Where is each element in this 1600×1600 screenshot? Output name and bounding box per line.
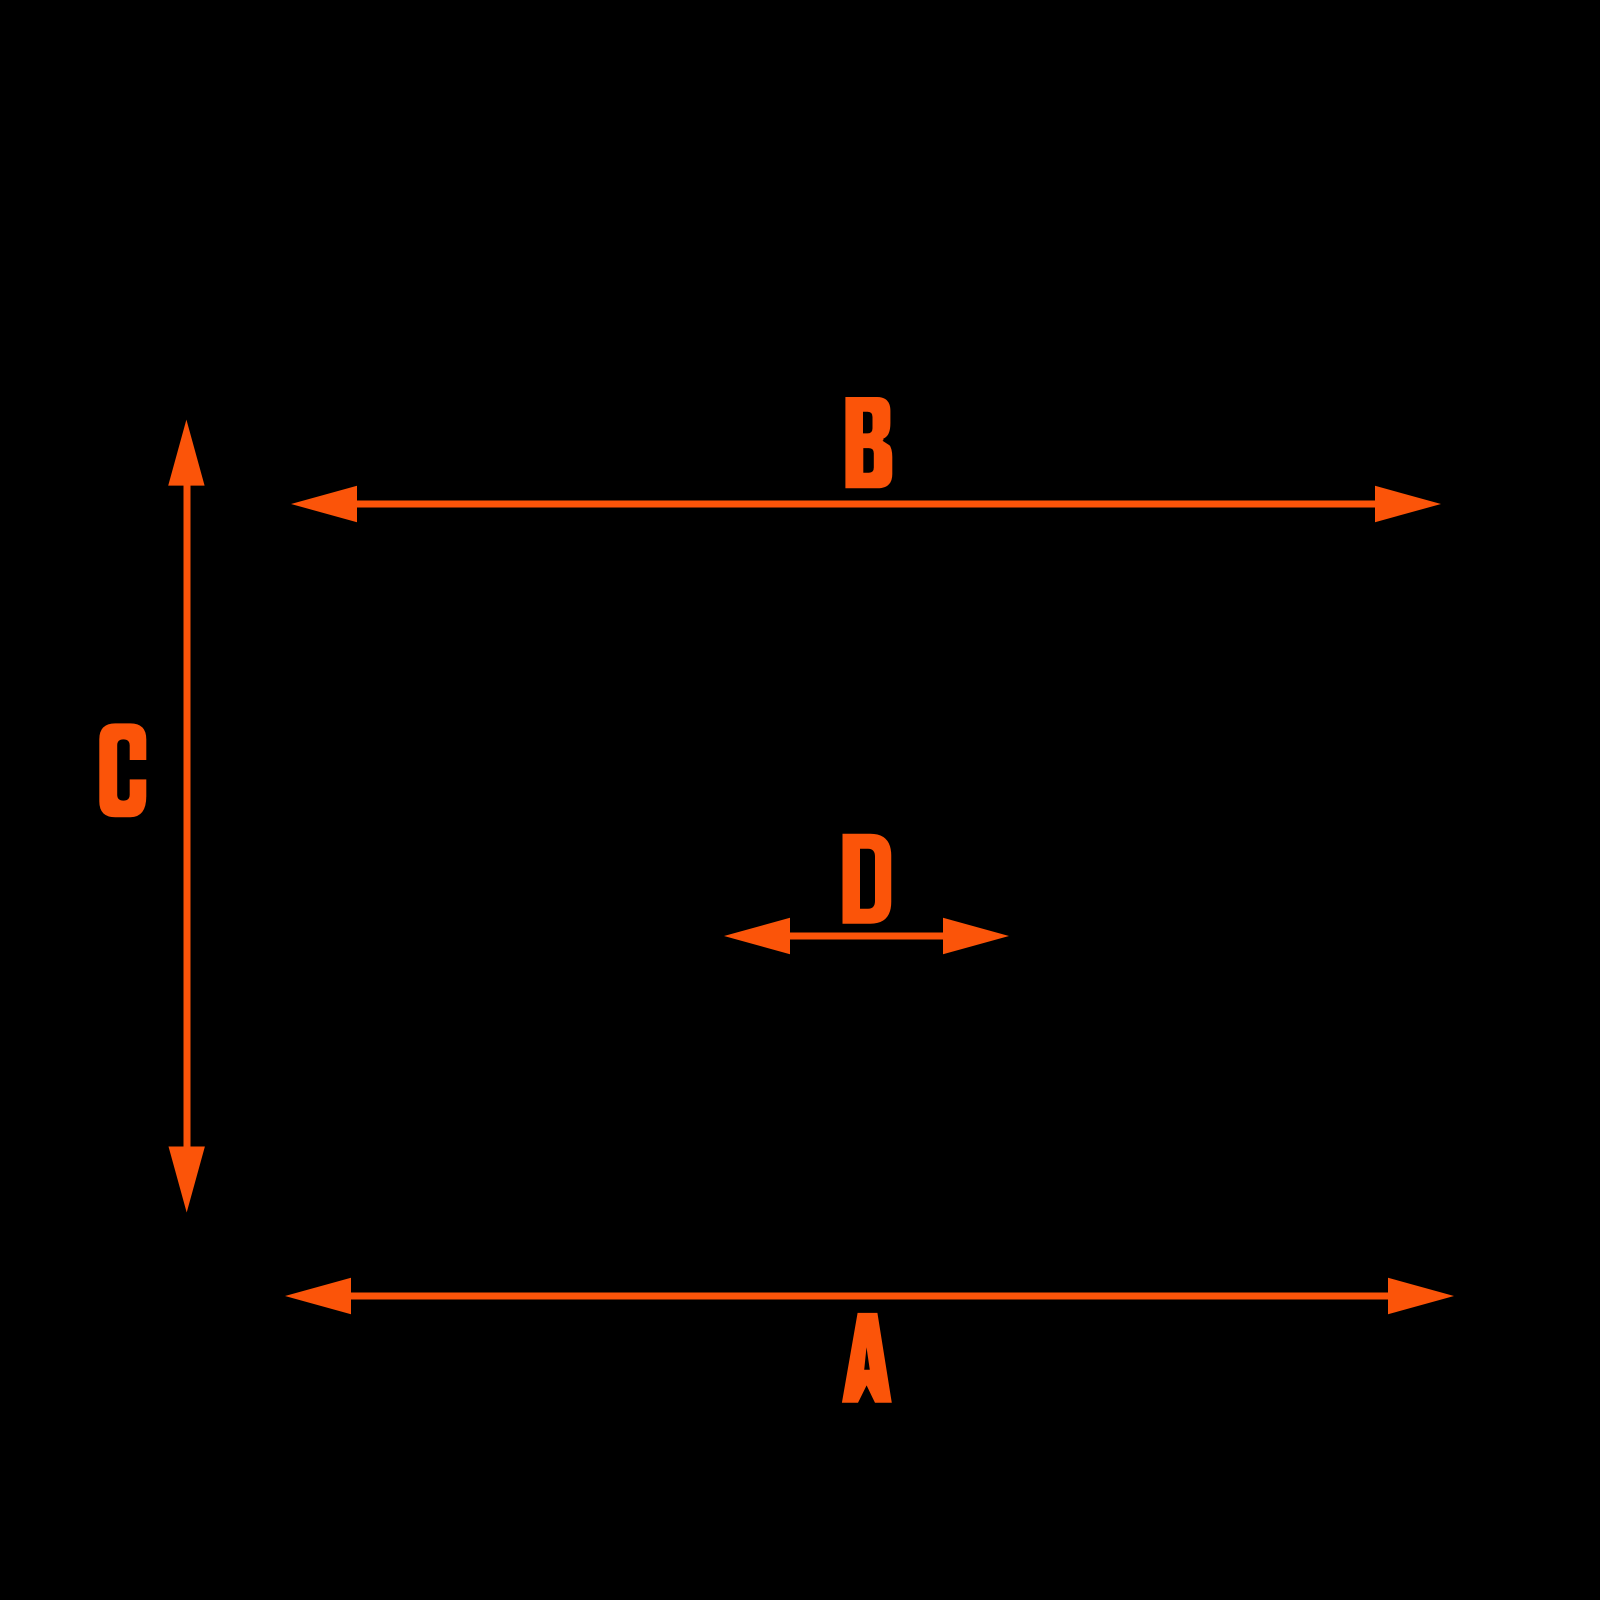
label C bbox=[99, 723, 146, 817]
label B bbox=[845, 397, 892, 488]
dimension arrow A (bottom horizontal double arrow) bbox=[285, 1278, 1454, 1314]
dimension arrow B (top horizontal double arrow) bbox=[291, 486, 1441, 522]
dimension arrow C (left vertical double arrow) bbox=[168, 420, 205, 1213]
dimension arrow D (middle horizontal double arrow) bbox=[724, 918, 1009, 954]
label A bbox=[842, 1313, 892, 1403]
label D bbox=[843, 834, 892, 924]
